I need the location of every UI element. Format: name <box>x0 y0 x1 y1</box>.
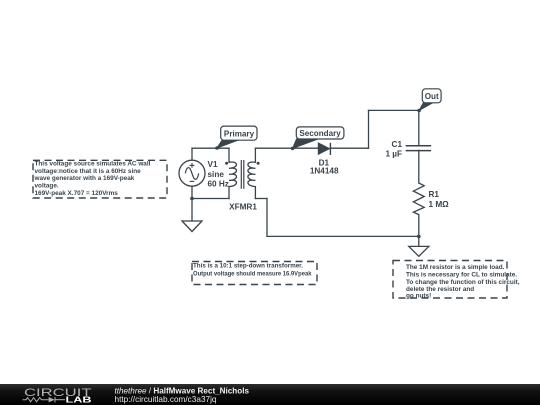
svg-text:This voltage source simulates: This voltage source simulates AC wall <box>35 161 151 168</box>
junction V1 bottom <box>190 197 194 201</box>
svg-text:This is necessary for CL to si: This is necessary for CL to simulate. <box>406 271 517 278</box>
voltage source V1 <box>179 160 205 186</box>
label XFMR1 <box>229 203 257 212</box>
label C1 value <box>385 140 402 158</box>
node Out flag <box>417 89 441 112</box>
wire secondary bottom stub horizontal <box>255 198 267 200</box>
wire primary top stub <box>228 148 230 162</box>
svg-text:voltage:notice that it is a 60: voltage:notice that it is a 60Hz sine <box>35 168 142 175</box>
wire primary bottom stub <box>228 187 230 199</box>
annotation note 3 <box>393 261 520 300</box>
svg-text:sine: sine <box>208 170 225 179</box>
transformer phase dot secondary <box>257 162 260 165</box>
transformer phase dot primary <box>225 162 228 165</box>
ground GND2 <box>409 246 429 256</box>
svg-text:Out: Out <box>425 92 439 101</box>
svg-text:voltage.: voltage. <box>35 183 59 190</box>
ground GND1 <box>182 221 202 232</box>
wire secondary top to diode anode <box>255 147 318 149</box>
svg-text:1 µF: 1 µF <box>385 150 402 159</box>
wire secondary bottom stub <box>254 187 256 199</box>
svg-text:C1: C1 <box>392 140 403 149</box>
wire C1 to R1 <box>418 150 420 183</box>
wire V1 bottom to ground <box>191 186 193 221</box>
wire bottom long horizontal <box>267 235 419 237</box>
svg-text:60 Hz: 60 Hz <box>208 179 229 188</box>
svg-text:This is a 10:1 step-down trans: This is a 10:1 step-down transformer. <box>193 263 303 270</box>
wire bottom junction to ground <box>418 236 420 246</box>
annotation note 1 <box>33 160 167 198</box>
wire top rail V1 to primary <box>192 147 229 149</box>
svg-text:1N4148: 1N4148 <box>310 167 339 176</box>
svg-text:XFMR1: XFMR1 <box>229 203 257 212</box>
svg-text:Output voltage should measure: Output voltage should measure 16.9Vpeak <box>193 270 312 277</box>
resistor R1 <box>413 183 424 215</box>
svg-text:To change the function of this: To change the function of this circuit, <box>406 279 520 286</box>
svg-text:V1: V1 <box>208 160 218 169</box>
diode D1 <box>318 143 330 155</box>
transformer XFMR1 <box>229 160 255 189</box>
label D1 <box>310 158 339 175</box>
wire V1 top vertical <box>191 148 193 160</box>
wire diode cathode to bend <box>330 147 368 149</box>
junction bottom right <box>417 235 421 239</box>
svg-text:Primary: Primary <box>224 129 255 138</box>
label R1 value <box>429 190 450 209</box>
svg-text:http://circuitlab.com/c3a37jq: http://circuitlab.com/c3a37jq <box>115 394 217 404</box>
svg-text:wave generator with a 169V-pea: wave generator with a 169V-peak <box>34 175 135 182</box>
svg-text:The 1M resistor is a simple lo: The 1M resistor is a simple load. <box>406 264 505 271</box>
svg-text:Secondary: Secondary <box>299 129 341 138</box>
wire bottom horizontal V1 to primary <box>192 198 229 200</box>
annotation note 2 <box>192 262 317 285</box>
label V1 value <box>208 160 229 188</box>
wire horizontal to Out node <box>369 109 419 111</box>
wire vertical bend up <box>368 110 370 148</box>
svg-text:LAB: LAB <box>66 394 92 404</box>
capacitor C1 <box>406 146 432 151</box>
wire secondary top stub <box>254 148 256 162</box>
svg-text:go nuts!: go nuts! <box>406 293 431 300</box>
node Primary flag <box>215 126 257 150</box>
footer title text <box>115 385 250 403</box>
footer bar <box>0 384 540 405</box>
node Secondary flag <box>291 127 344 150</box>
wire R1 to bottom junction <box>418 215 420 237</box>
svg-text:169V-peak X.707 = 120Vrms: 169V-peak X.707 = 120Vrms <box>35 190 119 197</box>
wire Out node down to C1 <box>418 110 420 145</box>
CircuitLab logo <box>23 387 92 404</box>
svg-text:1 MΩ: 1 MΩ <box>429 200 450 209</box>
svg-text:R1: R1 <box>429 190 440 199</box>
wire secondary return vertical <box>266 199 268 237</box>
